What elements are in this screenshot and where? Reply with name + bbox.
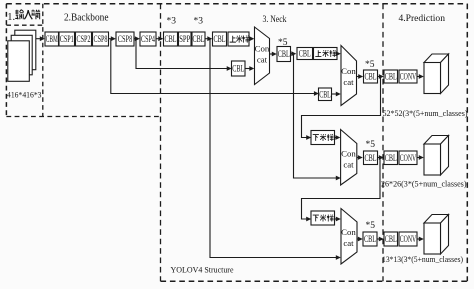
svg-text:CSP4: CSP4 — [141, 35, 155, 45]
wire/arrow input to CBM — [36, 36, 45, 41]
label label *5 tier2 — [365, 60, 375, 70]
label label yolov4 structure — [171, 265, 234, 275]
svg-text:CONV: CONV — [400, 235, 417, 245]
svg-text:cat: cat — [343, 77, 354, 87]
top dashed edge — [6, 3, 467, 5]
wire/arrow concat2 to CBL*5 — [357, 74, 364, 79]
svg-text:cat: cat — [343, 238, 354, 248]
box CSP8 a — [93, 32, 109, 46]
box pred CBL 52 — [384, 70, 398, 83]
box CBL x5 Y3 — [364, 70, 378, 83]
wire/arrow Y4 to pred CBL 26 — [378, 155, 384, 160]
concat block Concat1 — [255, 27, 270, 85]
svg-text:Con: Con — [341, 149, 356, 159]
box CBM — [45, 32, 59, 46]
wire/arrow Y2 to CBL-upsample2 — [291, 51, 297, 56]
box CBL spp2 — [192, 32, 205, 46]
svg-text:4.Prediction: 4.Prediction — [399, 14, 446, 24]
wire/arrow concat3 to CBL*5 — [357, 155, 363, 160]
box CBL spp1 — [164, 32, 178, 46]
box downsample 1 — [311, 131, 335, 145]
label title input 1. — [7, 12, 15, 23]
input title dashed divider — [6, 24, 42, 26]
wire/arrow CBL to concat1 lower — [245, 66, 254, 71]
wire Y1 branch to concat4 — [210, 39, 341, 260]
concat block Concat4 — [341, 209, 357, 265]
svg-text:*3: *3 — [194, 17, 204, 27]
box CSP2 — [76, 32, 92, 46]
box pred CBL 26 — [384, 151, 398, 165]
wire P4 branch to CBL — [136, 39, 232, 71]
box CSP4 — [140, 32, 156, 46]
svg-text:CBL: CBL — [319, 91, 331, 101]
wire/arrow CSP4 to CBL-SPP-CBL — [156, 36, 163, 41]
right dashed edge — [466, 4, 468, 282]
box downsample 2 — [311, 211, 335, 225]
label label *5 tier3 — [366, 140, 376, 150]
wire/arrow to pred CBL 13 — [377, 237, 384, 242]
box upsample 1 — [228, 32, 249, 46]
svg-text:CBL: CBL — [364, 235, 376, 245]
box CSP1 — [59, 32, 75, 46]
wire Y4 branch to downsample2 — [302, 158, 381, 222]
svg-text:*3: *3 — [167, 17, 177, 27]
label label 416*416*3 — [7, 90, 42, 100]
svg-text:CBL: CBL — [299, 50, 311, 60]
wire/arrow concat4 to CBL*5 — [357, 237, 363, 242]
svg-text:2.Backbone: 2.Backbone — [64, 13, 109, 24]
svg-text:CSP1: CSP1 — [60, 35, 74, 45]
svg-text:52*52(3*(5+num_classes): 52*52(3*(5+num_classes) — [383, 109, 468, 118]
svg-text:13*13(3*(5+num_classes): 13*13(3*(5+num_classes) — [382, 255, 463, 264]
svg-text:Con: Con — [255, 44, 270, 54]
label label *3 b — [194, 17, 204, 27]
svg-text:CBL: CBL — [278, 50, 290, 60]
structure box bottom dashed edge — [161, 280, 468, 282]
wire/arrow CBL to concat2 lower — [332, 92, 341, 97]
label label 26*26 — [381, 180, 467, 189]
label label *5 tier1 — [278, 38, 288, 48]
box CBL x5 13 — [363, 232, 377, 246]
wire/arrow Y3 to pred CBL 52 — [378, 74, 384, 79]
svg-text:CBL: CBL — [385, 154, 397, 164]
box CBL ups2 — [297, 48, 313, 60]
box CBL x5 Y4 — [364, 151, 378, 165]
box upsample 2 — [314, 48, 338, 60]
svg-text:CBL: CBL — [232, 65, 244, 75]
wire Y2 branch to concat3 — [294, 54, 341, 181]
svg-text:CSP8: CSP8 — [118, 35, 133, 45]
svg-text:CONV: CONV — [400, 73, 417, 83]
title input CJK 输入端 — [15, 10, 40, 20]
wire/arrow upsample1 to concat1 — [249, 36, 254, 41]
wire/arrow CONV to cube 52 — [417, 74, 424, 79]
output cube cube 26x26 — [424, 136, 449, 176]
svg-text:*5: *5 — [366, 140, 376, 150]
svg-text:CONV: CONV — [400, 154, 417, 164]
label label *5 tier4 — [366, 221, 376, 231]
concat block Concat2 — [341, 46, 357, 106]
concat block Concat3 — [341, 130, 357, 186]
svg-text:CBM: CBM — [46, 35, 58, 45]
prediction section dashed separator — [382, 4, 384, 282]
svg-text:CSP2: CSP2 — [77, 35, 91, 45]
svg-text:CBL: CBL — [365, 73, 377, 83]
svg-text:416*416*3: 416*416*3 — [7, 90, 42, 100]
svg-text:*5: *5 — [366, 221, 376, 231]
svg-text:cat: cat — [343, 159, 354, 169]
wire/arrow upsample2 to concat2 — [336, 51, 341, 56]
neck section dashed separator — [160, 4, 162, 282]
svg-text:CBL: CBL — [193, 35, 205, 45]
svg-text:cat: cat — [257, 54, 268, 64]
svg-text:YOLOV4 Structure: YOLOV4 Structure — [171, 265, 234, 275]
svg-text:CBL: CBL — [214, 35, 226, 45]
wire/arrow CSP8b to CSP4 — [134, 36, 140, 41]
svg-text:*5: *5 — [365, 60, 375, 70]
input box right dashed edge — [42, 4, 44, 117]
box CBL from P4 — [232, 61, 246, 76]
wire/arrow downsample1 to concat3 — [335, 135, 341, 140]
box CSP8 b — [116, 32, 134, 46]
box SPP — [179, 32, 192, 46]
input image stack — [8, 30, 36, 81]
label title neck — [263, 15, 287, 25]
label title backbone — [64, 13, 109, 24]
svg-text:CBL: CBL — [365, 154, 377, 164]
svg-text:CBL: CBL — [165, 35, 177, 45]
label label 13*13 — [382, 255, 463, 264]
wire/arrow concat1 to CBL*5 — [270, 52, 277, 57]
wire/arrow SPP group to CBL-upsample — [205, 36, 212, 41]
label label 52*52 — [383, 109, 468, 118]
wire/arrow CSP8a to CSP8b — [109, 36, 116, 41]
svg-text:Con: Con — [341, 227, 356, 237]
box pred CBL 13 — [384, 232, 398, 246]
svg-text:26*26(3*(5+num_classes): 26*26(3*(5+num_classes) — [381, 180, 467, 189]
wire/arrow downsample2 to concat4 — [335, 217, 341, 222]
svg-text:CBL: CBL — [385, 73, 397, 83]
wire P3 branch to tier2 CBL — [111, 39, 319, 96]
wire/arrow CONV to cube 13 — [417, 237, 424, 242]
label title prediction — [399, 14, 446, 24]
box CBL ups1 — [213, 32, 227, 46]
svg-text:CBL: CBL — [385, 235, 397, 245]
box pred CONV 13 — [399, 232, 417, 246]
svg-text:CSP8: CSP8 — [94, 35, 108, 45]
box pred CONV 26 — [399, 151, 417, 165]
svg-text:1.: 1. — [7, 12, 15, 23]
box CBL from P3 — [319, 88, 332, 101]
output cube cube 52x52 — [424, 54, 449, 94]
label label *3 a — [167, 17, 177, 27]
box pred CONV 52 — [399, 70, 417, 83]
svg-text:SPP: SPP — [179, 35, 190, 45]
wire Y3 branch to downsample1 — [302, 77, 381, 140]
output cube cube 13x13 — [424, 215, 449, 255]
left dashed edge (input box) — [5, 4, 7, 117]
wire/arrow CONV to cube 26 — [417, 155, 424, 160]
input/backbone bottom dashed edge — [6, 116, 160, 118]
svg-text:3. Neck: 3. Neck — [263, 15, 287, 25]
box CBL x5 Y2 — [277, 47, 291, 62]
svg-text:Con: Con — [341, 66, 356, 76]
